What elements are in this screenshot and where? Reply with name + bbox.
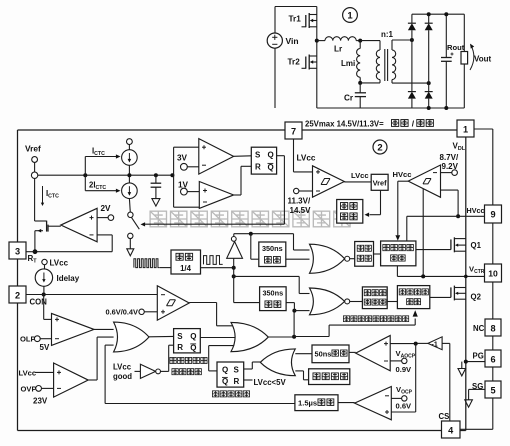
svg-text:Vref: Vref <box>373 179 388 188</box>
svg-text:R: R <box>255 163 261 172</box>
svg-text:5: 5 <box>490 386 495 396</box>
label - overcurrent protection <box>212 391 218 397</box>
block - level shift <box>355 242 374 267</box>
wire - level shift to high driver <box>374 253 381 255</box>
svg-text:good: good <box>113 372 132 381</box>
svg-text:Tr1: Tr1 <box>289 15 302 24</box>
op-amp U3 (2V ref) <box>61 208 97 242</box>
wire - 50ns delay to OR-C <box>295 353 312 355</box>
node - secondary bottom tap <box>427 81 431 85</box>
wire - inverted direct to NOR1 <box>293 234 295 250</box>
svg-text:Cr: Cr <box>344 94 354 103</box>
comparator U4 (0.6V/0.4V hysteresis) <box>157 286 189 320</box>
block - low side gate driver <box>397 286 429 309</box>
svg-text:1/4: 1/4 <box>180 264 192 273</box>
wire - U8 plus input <box>390 343 416 345</box>
source Vin <box>267 33 282 48</box>
node - osc net 1 <box>232 266 236 270</box>
nor-gate NOR1 (high side) <box>310 244 345 273</box>
svg-text:9: 9 <box>490 210 495 220</box>
diode D3 <box>411 40 413 92</box>
comparator U12 (HVcc UVLO, schmitt, left-pointing) <box>408 165 440 197</box>
svg-text:LVcc: LVcc <box>351 171 369 180</box>
wire - high driver to Q1 gate <box>416 249 451 251</box>
svg-text:7: 7 <box>291 127 296 137</box>
wire - 1V to U2 input <box>187 191 199 193</box>
svg-text:6: 6 <box>490 355 495 365</box>
wire - OR-C to FF2 S <box>244 368 253 370</box>
wire - to 350ns delay 2 <box>234 302 260 304</box>
wire - midpoint to Lr <box>317 40 325 42</box>
wire - VCTR sense vertical <box>422 189 424 277</box>
pin 1 <box>457 120 474 137</box>
wire - pin7 to U11 <box>293 139 295 172</box>
svg-text:Q: Q <box>268 163 274 172</box>
svg-text:9.2V: 9.2V <box>442 162 459 171</box>
svg-text:11.3V/: 11.3V/ <box>288 197 311 206</box>
node - bridge bottom D4 <box>427 106 431 110</box>
comparator U1 (3V) <box>199 139 234 175</box>
svg-text:-1: -1 <box>432 341 438 348</box>
wire - thermal to OR-C <box>295 370 303 372</box>
comparator U11 (LVcc UVLO, schmitt) <box>313 166 345 197</box>
svg-text:Q: Q <box>222 366 228 375</box>
wire - U6 out to OR-A <box>88 379 97 381</box>
svg-text:Rout: Rout <box>447 43 465 52</box>
wire - FF2 R input LVcc<5V <box>244 379 253 381</box>
svg-text:CON: CON <box>30 298 48 307</box>
wire - rectifier top rail <box>412 13 464 15</box>
block - thermal protection <box>309 369 350 385</box>
wire - direct to NOR2 <box>234 275 300 277</box>
wire - rectifier bottom rail <box>317 107 465 109</box>
wire - HVcc net to high driver supply <box>407 215 458 217</box>
wire - U4 out to OR-B <box>189 302 216 304</box>
wire - bias rail to current mirrors <box>38 174 174 176</box>
pin 6 <box>485 350 501 367</box>
ground - below Ct <box>152 199 160 207</box>
svg-text:350ns: 350ns <box>262 244 283 253</box>
wire - CS node to VOCP comp <box>415 344 417 412</box>
wire - FF2 Q to OR-B <box>209 370 217 372</box>
label - non-delayed shoot-through protection <box>343 316 349 322</box>
svg-text:Vin: Vin <box>286 36 299 46</box>
svg-text:HVcc: HVcc <box>393 170 412 179</box>
comparator U5 (OLP 5V) <box>52 313 95 345</box>
svg-text:ICTC: ICTC <box>92 147 105 158</box>
block - 50ns delay <box>312 345 349 363</box>
IC boundary box <box>17 130 19 431</box>
transformer T1 secondary <box>392 50 396 80</box>
transistor M1 (Ictc setting) <box>35 220 47 222</box>
svg-text:Tr2: Tr2 <box>288 58 301 67</box>
svg-text:Lr: Lr <box>334 45 343 54</box>
wire - OCP 1.5us to OR-A <box>105 403 295 405</box>
node RT <box>33 249 38 254</box>
svg-text:3: 3 <box>15 247 20 257</box>
node - Cout top <box>444 12 448 16</box>
wire - deadtime to low driver <box>387 301 397 303</box>
switch S1 blade <box>131 217 139 229</box>
wire - FF0 Q to sample switch control <box>277 155 285 157</box>
node - mirror branch <box>83 173 87 177</box>
wire - U3 minus feedback to RT node <box>97 234 112 236</box>
svg-text:S: S <box>255 151 261 160</box>
ground - SG <box>465 400 473 407</box>
label - auto reset voltage protection <box>170 357 176 363</box>
pin 3 <box>9 242 26 259</box>
svg-text:S: S <box>234 366 240 375</box>
svg-text:VCTR: VCTR <box>469 265 485 276</box>
or-gate OR-B (protection combiner) <box>231 322 268 351</box>
wire - 350ns delay 2 to NOR2 node <box>286 302 294 304</box>
svg-text:8: 8 <box>490 324 495 334</box>
inductor Lm <box>359 41 361 49</box>
wire - A1 to CS node <box>417 342 428 344</box>
transistor Q1 <box>450 239 452 249</box>
node - secondary top tap <box>410 38 414 42</box>
wire - U5 out to OR-A <box>94 328 114 330</box>
block - internal bias <box>337 200 363 224</box>
or-gate OR-A (voltage faults) <box>114 322 149 352</box>
ground - PG <box>461 362 463 369</box>
wire - Vref to bias node <box>34 162 36 172</box>
flip-flop FF0 S/R <box>251 147 276 174</box>
svg-text:R: R <box>234 377 240 386</box>
node B - primary bottom <box>358 81 362 85</box>
svg-text:/: / <box>412 119 415 129</box>
wire - CON branch to OLP comparator <box>43 295 45 320</box>
svg-text:0.9V: 0.9V <box>396 365 413 374</box>
wire - U12 out to high driver (arrow) <box>398 180 408 182</box>
wire - external bus pin1 to right-side pins <box>474 128 493 130</box>
wire - low driver to Q2 gate <box>430 296 451 298</box>
wire - SG to pin5 <box>469 388 485 390</box>
wire - 3V to U1 minus <box>187 166 199 168</box>
capacitor Cr <box>359 83 361 93</box>
svg-text:NC: NC <box>473 324 485 333</box>
or-gate OR-C (OCP combiner, left-pointing) <box>260 349 295 376</box>
label circle 1 <box>343 8 358 23</box>
svg-text:25Vmax 14.5V/11.3V=: 25Vmax 14.5V/11.3V= <box>305 120 384 129</box>
node - CS sense <box>414 342 418 346</box>
comparator U6 (OVP 23V) <box>54 363 89 397</box>
divider output waveform <box>201 267 234 269</box>
node - osc net 2 <box>232 274 236 278</box>
pin 5 <box>485 381 501 398</box>
wire - U1 out to S <box>234 155 252 158</box>
svg-text:3V: 3V <box>177 154 188 163</box>
wire - inverter out net <box>233 234 235 237</box>
svg-text:23V: 23V <box>33 397 48 406</box>
svg-text:LVcc: LVcc <box>19 369 37 378</box>
svg-text:50ns: 50ns <box>315 350 332 359</box>
svg-text:S: S <box>177 332 183 341</box>
svg-text:CS: CS <box>439 412 450 421</box>
current source 2Ictc <box>84 175 86 191</box>
wire - NOR2 to deadtime gen <box>350 301 363 303</box>
watermark - hangzhou jiangrui technology co ltd <box>150 211 166 227</box>
svg-text:0.6V: 0.6V <box>396 402 413 411</box>
node PG <box>464 360 468 364</box>
svg-text:LVcc<5V: LVcc<5V <box>254 378 287 387</box>
block - quiet time generator <box>362 287 387 309</box>
pin 4 <box>442 421 461 438</box>
svg-text:1: 1 <box>463 125 468 135</box>
svg-text:14.5V: 14.5V <box>290 206 312 215</box>
block - 350ns delay 1 <box>259 242 286 267</box>
svg-text:10: 10 <box>488 269 498 279</box>
terminal LVcc (Idelay) <box>42 259 47 264</box>
transistor Q2 <box>450 287 452 297</box>
wire - converter top rail <box>275 6 317 8</box>
svg-text:Vout: Vout <box>474 55 492 64</box>
capacitor Cout <box>445 14 447 57</box>
block - 350ns delay 2 <box>260 287 287 311</box>
wire - 350ns delay 1 to NOR1 <box>286 258 310 260</box>
comparator U9 (VOCP 0.6V, left-pointing) <box>355 387 392 420</box>
wire - Lr to transformer node <box>356 40 360 42</box>
svg-text:2V: 2V <box>101 204 112 213</box>
svg-text:5V: 5V <box>40 343 50 352</box>
block - high side gate driver <box>381 241 416 266</box>
wire - half-bridge rail <box>316 7 318 109</box>
block - Vref regulator <box>371 174 388 190</box>
buffer U7 (LVcc good) <box>135 370 141 372</box>
svg-text:1: 1 <box>347 11 353 22</box>
nor-gate NOR2 (low side) <box>310 288 345 315</box>
wire - U2 out to R <box>234 194 241 196</box>
inductor Lr <box>325 37 356 41</box>
svg-text:VDL: VDL <box>453 142 466 153</box>
wire - OR-A to FF1 S <box>149 335 174 337</box>
svg-text:n:1: n:1 <box>381 30 394 39</box>
node - bridge top D2 <box>427 12 431 16</box>
inverter U10 <box>227 242 243 259</box>
svg-text:1.5µs: 1.5µs <box>298 399 317 408</box>
svg-text:Q1: Q1 <box>471 241 482 250</box>
wire - PG to pin6 <box>466 361 485 363</box>
wire - osc net vertical <box>233 259 235 303</box>
pin 8 <box>485 319 501 336</box>
wire - to 3V/1V comparators <box>173 147 175 207</box>
node A - primary top <box>358 39 362 43</box>
pin 2 <box>9 286 26 303</box>
divider input waveform <box>127 249 134 256</box>
block - divider 1/4 <box>171 250 201 274</box>
svg-text:RT: RT <box>28 254 38 265</box>
pin 7 <box>285 122 302 139</box>
svg-text:Q2: Q2 <box>471 293 482 302</box>
svg-text:LVcc: LVcc <box>297 154 316 163</box>
svg-text:LVcc: LVcc <box>50 259 69 268</box>
svg-text:Q: Q <box>222 377 228 386</box>
annotation - Vout arc <box>470 45 474 71</box>
svg-text:8.7V/: 8.7V/ <box>440 153 459 162</box>
svg-text:LVcc: LVcc <box>113 363 132 372</box>
wire - A1 to CS pin4 <box>442 342 450 344</box>
node CON <box>42 293 46 297</box>
wire - between current sources <box>128 165 130 183</box>
terminal 11.3V/14.5V <box>294 188 299 193</box>
svg-text:HVcc: HVcc <box>467 206 485 215</box>
wire - pin2 CON to hysteresis comparator <box>27 294 158 296</box>
flip-flop FF2 (overcurrent protection) <box>217 362 244 387</box>
diode D4 <box>428 83 430 92</box>
svg-text:Lmi: Lmi <box>341 59 355 68</box>
wire - switch to waveform arrow <box>129 239 131 249</box>
terminal 8.7V/9.2V <box>441 172 452 174</box>
wire - Vref to internal bias <box>380 190 382 214</box>
svg-text:Q: Q <box>190 344 196 353</box>
switch S1 bottom contact <box>128 233 133 238</box>
wire - VCTR rail <box>396 266 398 277</box>
svg-text:4: 4 <box>448 426 454 436</box>
node - half-bridge midpoint <box>315 39 319 43</box>
svg-text:Idelay: Idelay <box>57 274 80 283</box>
annotation - Ictc current arrow <box>42 186 44 203</box>
transformer T1 primary <box>360 40 380 42</box>
svg-text:Q: Q <box>190 332 196 341</box>
wire - pin3 to RT node <box>26 251 35 253</box>
svg-text:VOCP: VOCP <box>396 385 413 396</box>
wire - FF1 Q to OR-B <box>200 337 236 339</box>
transformer T1 core <box>384 49 386 81</box>
wire - 2Ictc to switch <box>128 199 131 213</box>
amplifier A1 (-1) <box>428 337 442 350</box>
wire - U9 out to 1.5us delay <box>338 402 355 404</box>
wire - U7 to FF1 R <box>161 370 169 372</box>
terminal - Ictc top <box>126 139 132 145</box>
svg-text:PG: PG <box>473 352 484 361</box>
pin 10 <box>485 264 502 282</box>
svg-text:2ICTC: 2ICTC <box>89 181 106 192</box>
label circle 2 <box>373 140 387 154</box>
switch S1 top contact <box>128 212 133 217</box>
comparator U8 (VAOCP 0.9V, left-pointing) <box>356 336 391 371</box>
wire - HVcc net to pin9 <box>458 215 484 217</box>
node - Vref junction circle <box>31 172 37 178</box>
wire - HVcc sense input <box>441 189 459 191</box>
svg-text:350ns: 350ns <box>262 289 283 298</box>
flip-flop FF1 (auto-restart voltage protection) <box>174 329 201 353</box>
svg-text:2: 2 <box>377 143 382 154</box>
pin 9 <box>485 205 502 223</box>
node - comparator feed <box>170 173 174 177</box>
wire - OR-B output to NOR2 / drivers <box>268 336 294 338</box>
current source Idelay <box>35 269 52 286</box>
wire - VAOCP comp out to 50ns delay <box>349 351 356 353</box>
svg-text:Q: Q <box>268 151 274 160</box>
wire - NOR1 to level shift <box>350 258 355 260</box>
current source Ictc <box>84 157 86 176</box>
node - Cout bottom <box>444 106 448 110</box>
block - 1.5us delay <box>295 395 338 411</box>
wire - inverted to 350ns delay 1 <box>250 234 252 260</box>
diode D1 <box>411 14 413 23</box>
svg-text:OLP: OLP <box>20 335 36 344</box>
capacitor Ct <box>154 173 158 177</box>
svg-text:R: R <box>177 343 183 352</box>
wire - U11 out to Vref block <box>344 181 371 183</box>
svg-text:OVP: OVP <box>21 385 37 394</box>
diode D2 <box>428 14 430 23</box>
svg-text:0.6V/0.4V: 0.6V/0.4V <box>106 308 139 317</box>
svg-text:ICTC: ICTC <box>46 189 59 200</box>
svg-text:Vref: Vref <box>25 144 41 154</box>
wire - converter left rail <box>274 7 276 34</box>
comparator U2 (1V) <box>199 182 233 209</box>
node HVcc <box>456 214 460 218</box>
svg-text:2: 2 <box>15 291 20 301</box>
